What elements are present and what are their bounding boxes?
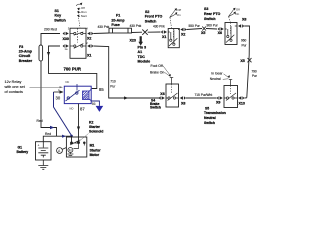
label NC (tiny) — [66, 80, 70, 84]
S3 lever Off/On — [228, 9, 234, 22]
pin number 1a — [65, 47, 68, 51]
pin label 4 — [58, 88, 60, 92]
wire diagonal relay 30 to solenoid B (blue) — [54, 92, 72, 136]
labels Off / On (S3) — [235, 8, 239, 17]
svg-text:X13: X13 — [239, 101, 245, 105]
label X1 (S2 left) — [162, 35, 166, 39]
svg-text:Off: Off — [236, 8, 240, 12]
connector X5 (horizontal) — [202, 27, 206, 31]
relay coil (blue hatched) — [83, 89, 92, 102]
svg-text:X9: X9 — [216, 100, 220, 104]
S5 plunger — [229, 80, 232, 86]
label 710 Pur — [110, 80, 116, 89]
svg-text:Switch: Switch — [204, 121, 215, 125]
connector X1 (S2 left) — [161, 30, 167, 33]
wire S2 to X5 — [187, 29, 203, 30]
label X30 — [63, 37, 69, 41]
S2 internal dashes — [173, 29, 175, 39]
svg-text:Switch: Switch — [204, 17, 216, 21]
wire Red battery to solenoid B junction — [43, 136, 71, 142]
front PTO switch S2 box — [168, 29, 179, 48]
label X5 (vertical) — [240, 59, 244, 63]
svg-text:Switch: Switch — [54, 18, 66, 22]
svg-text:710: 710 — [110, 80, 116, 84]
connector X8 (S3 right) — [238, 24, 244, 27]
svg-text:In Gear: In Gear — [211, 72, 223, 76]
svg-text:X6: X6 — [160, 92, 164, 96]
key switch contact row 2 — [70, 44, 86, 49]
ground (relay, blue) — [96, 106, 104, 112]
arrow to module (bold down) — [138, 36, 143, 45]
connector X9 (S5 left) — [217, 96, 223, 99]
svg-text:Breaker: Breaker — [19, 59, 33, 63]
svg-text:TDC: TDC — [138, 55, 146, 59]
wire X5 to S3 — [206, 28, 217, 31]
S2 lever Off/On — [170, 10, 176, 28]
wire key X2 to fuse F1 — [93, 32, 109, 35]
label X8 (S4 right) — [181, 101, 185, 105]
wire 200 Red breaker top to key switch — [41, 34, 60, 46]
svg-text:A1: A1 — [138, 50, 143, 54]
arrow on battery wire — [62, 135, 66, 138]
pin label 87 — [80, 106, 85, 111]
svg-text:X8: X8 — [181, 101, 185, 105]
connector X23 — [142, 30, 147, 35]
svg-text:X8: X8 — [242, 18, 246, 22]
svg-text:S5: S5 — [205, 106, 209, 110]
connector X13 (S5 right) — [238, 96, 244, 99]
wire 700 PUR key switch to relay 85 — [49, 46, 97, 89]
svg-text:200 Red: 200 Red — [44, 28, 57, 32]
svg-text:700 PUR: 700 PUR — [64, 67, 82, 72]
svg-text:X30: X30 — [63, 37, 69, 41]
svg-text:30: 30 — [56, 96, 61, 101]
label Foot Off Brake On — [150, 64, 164, 75]
labels Off / On (S2) — [177, 8, 181, 17]
svg-text:Neutral: Neutral — [210, 77, 221, 81]
S5 internal dashes — [230, 86, 232, 95]
svg-text:86: 86 — [92, 102, 96, 106]
label S2 Front PTO Switch — [145, 10, 163, 23]
key switch S1 box — [70, 28, 86, 58]
label X13 — [239, 101, 245, 105]
ground (starter, internal) — [67, 153, 73, 158]
label 12v Relay with one set of contacts — [5, 80, 26, 94]
label X5 — [201, 31, 205, 35]
label F1 20-Amp Fuse — [111, 14, 125, 27]
svg-text:85: 85 — [99, 87, 104, 92]
wire relay 86 to ground — [91, 101, 99, 106]
label G1 Battery — [17, 146, 29, 155]
svg-text:+: + — [38, 144, 40, 148]
svg-text:S2: S2 — [145, 10, 149, 14]
wire junction into starter box B terminal — [71, 136, 73, 142]
leader arrows to S5 plunger — [223, 74, 229, 80]
label 430 Pnk (1) — [98, 25, 110, 29]
S4 internal dashes — [171, 84, 173, 94]
svg-text:Red: Red — [37, 119, 43, 123]
arrow on brake row wire — [124, 96, 128, 99]
svg-text:430 Pnk: 430 Pnk — [130, 24, 142, 28]
label 960 Pur (vertical wire) — [241, 39, 247, 48]
svg-text:S3: S3 — [204, 7, 208, 11]
svg-text:X5: X5 — [240, 59, 244, 63]
connector X1 (key right bottom) — [87, 44, 93, 47]
wire fuse to X23 — [132, 31, 143, 33]
battery plus sign — [38, 144, 40, 148]
battery G1 box — [36, 142, 52, 160]
label K2 Starter Solenoid — [89, 121, 103, 134]
wire into relay pin 30 — [54, 91, 61, 93]
svg-text:On: On — [177, 13, 181, 17]
svg-text:Transmission: Transmission — [204, 111, 226, 115]
connector X5 (vertical) — [248, 58, 252, 62]
svg-text:20-Amp: 20-Amp — [111, 18, 125, 22]
fuse F1 — [109, 28, 132, 33]
svg-text:20-Amp: 20-Amp — [19, 50, 33, 54]
label 790 Pur — [251, 69, 257, 78]
label X1 — [87, 53, 91, 57]
svg-text:Circuit: Circuit — [19, 54, 31, 58]
ground (battery) — [38, 160, 48, 169]
label Red (on vertical) — [37, 119, 43, 123]
svg-text:with one set: with one set — [5, 85, 26, 89]
arrow on wire y127.5 — [50, 126, 54, 129]
pin number 2 — [86, 41, 88, 45]
leader line to relay — [30, 86, 61, 89]
svg-text:X1: X1 — [87, 53, 91, 57]
pin label 85 — [99, 87, 104, 92]
svg-text:Pin 3: Pin 3 — [138, 45, 147, 49]
svg-text:M1: M1 — [90, 144, 95, 148]
svg-text:K2: K2 — [89, 121, 93, 125]
label 200 Red — [44, 28, 57, 32]
label 960 Pur — [207, 24, 219, 28]
wire relay 87 down to starter solenoid S — [78, 104, 80, 142]
rear PTO switch S3 box — [225, 23, 237, 45]
S3 contact — [225, 26, 237, 43]
connector X2 (S2 right) — [180, 28, 186, 31]
connector X6 (S3 left) — [218, 27, 224, 30]
wire key X1 to brake row — [93, 46, 160, 98]
svg-text:715 Pur/Wht: 715 Pur/Wht — [195, 93, 213, 97]
label Red (above battery wire) — [45, 132, 51, 136]
svg-text:Off: Off — [177, 8, 181, 12]
svg-text:Starter: Starter — [90, 148, 102, 152]
label S4 Brake Switch — [150, 99, 161, 110]
label S3 Rear PTO Switch — [204, 7, 221, 21]
svg-text:F3: F3 — [19, 45, 23, 49]
svg-text:X2: X2 — [87, 36, 91, 40]
arrow on 700 PUR drop — [47, 52, 50, 56]
pin label 86 — [92, 102, 96, 106]
label X23 — [130, 39, 136, 43]
svg-text:Switch: Switch — [150, 106, 161, 110]
svg-text:87: 87 — [80, 106, 85, 111]
label M1 Starter Motor — [90, 144, 102, 158]
svg-text:Solenoid: Solenoid — [89, 130, 103, 134]
svg-text:Red: Red — [45, 132, 51, 136]
svg-text:of contacts: of contacts — [5, 90, 23, 94]
label In Gear Neutral — [210, 72, 224, 82]
svg-text:On: On — [235, 12, 239, 16]
motor M circle — [68, 148, 73, 153]
svg-text:Brake On: Brake On — [150, 70, 164, 74]
svg-text:960: 960 — [241, 39, 247, 43]
label X6 (S3 left) — [218, 31, 222, 35]
S4 plunger — [170, 78, 173, 85]
svg-text:X2: X2 — [181, 33, 185, 37]
key rotary positions — [76, 4, 81, 27]
label S1 Key Switch — [54, 9, 66, 23]
wire breaker down to battery area — [41, 61, 57, 136]
label X8 (S3 right) — [242, 18, 246, 22]
arrow on 87 wire — [77, 127, 80, 131]
connector key left bottom — [63, 44, 69, 47]
connector X30 (key left top) — [63, 32, 69, 35]
wire S3 out down right side — [244, 26, 249, 98]
svg-text:Battery: Battery — [17, 150, 29, 154]
label NO (tiny) — [70, 106, 74, 110]
svg-text:G1: G1 — [18, 146, 23, 150]
svg-text:Foot Off: Foot Off — [151, 64, 163, 68]
battery symbol — [38, 142, 48, 158]
svg-text:X23: X23 — [130, 39, 136, 43]
svg-text:X5: X5 — [201, 31, 205, 35]
relay K1 box (blue) — [64, 86, 91, 103]
brake switch S4 box — [166, 84, 179, 107]
S3 internal dashes — [230, 23, 232, 34]
starter solenoid contact K2 — [70, 141, 85, 144]
label 430 Pnk (3) — [153, 24, 165, 28]
pin number 4 — [86, 27, 88, 31]
connector X8 (S4 right) — [180, 96, 186, 99]
svg-text:NO: NO — [70, 106, 74, 110]
label 430 Pnk (2) — [130, 24, 142, 28]
connector X6 (S4 left) — [159, 96, 165, 99]
svg-text:12v Relay: 12v Relay — [5, 80, 22, 84]
starter box M1/K2 — [66, 137, 86, 157]
transmission neutral switch S5 box — [224, 86, 238, 108]
circuit breaker F3 — [39, 45, 43, 61]
pin label 30 — [56, 96, 61, 101]
S5 contact — [224, 93, 238, 101]
svg-text:Starter: Starter — [89, 125, 101, 129]
svg-text:550 Pur: 550 Pur — [189, 24, 201, 28]
svg-text:790: 790 — [251, 69, 257, 73]
label 550 Pur — [189, 24, 201, 28]
relay contact (blue) — [66, 84, 80, 101]
svg-text:430 Pnk: 430 Pnk — [153, 24, 165, 28]
label X6 (S4 left) — [160, 92, 164, 96]
svg-text:Front PTO: Front PTO — [145, 15, 163, 19]
label X9 (S5 left) — [216, 100, 220, 104]
svg-text:X1: X1 — [162, 35, 166, 39]
leader arrows to S4 plunger — [163, 66, 170, 77]
svg-text:NC: NC — [66, 80, 70, 84]
node B junction at solenoid — [70, 135, 73, 138]
svg-text:430 Pnk: 430 Pnk — [98, 25, 110, 29]
S4 contact — [166, 93, 179, 101]
key switch internal link (dashed) — [77, 28, 79, 42]
labels Off Run Start (key rotary) — [81, 6, 87, 18]
svg-text:Switch: Switch — [145, 19, 157, 23]
wire node A to starter box — [62, 148, 66, 150]
wire S5 to right vertical — [244, 97, 247, 99]
svg-text:Key: Key — [55, 14, 62, 18]
label X2 — [87, 36, 91, 40]
pin number 3 — [68, 27, 70, 31]
label F3 20-Amp Circuit Breaker — [19, 45, 33, 63]
svg-text:F1: F1 — [116, 14, 120, 18]
svg-text:960 Pur: 960 Pur — [207, 24, 219, 28]
label X2 (S2 right) — [181, 33, 185, 37]
node A connector circle — [57, 148, 63, 154]
svg-text:X6: X6 — [218, 31, 222, 35]
svg-text:Module: Module — [138, 60, 151, 64]
svg-text:Fuse: Fuse — [111, 23, 119, 27]
svg-text:Rear PTO: Rear PTO — [204, 12, 221, 16]
label Pin 3 A1 TDC Module — [138, 45, 151, 63]
svg-text:M: M — [69, 148, 72, 152]
label 715 Pur/Wht — [195, 93, 213, 97]
svg-text:Neutral: Neutral — [204, 116, 216, 120]
svg-text:Start: Start — [81, 14, 87, 18]
label 700 PUR — [64, 67, 82, 72]
leader K2 to solenoid — [80, 134, 89, 141]
svg-text:S1: S1 — [55, 9, 59, 13]
wire X23 to S2 — [148, 31, 161, 33]
key switch contact row 1 — [70, 32, 86, 35]
wire S4 to S5 — [186, 97, 217, 99]
connector X2 (key right top) — [87, 32, 93, 35]
label S5 Transmission Neutral Switch — [204, 106, 226, 124]
S2 contact — [168, 30, 179, 47]
svg-text:Motor: Motor — [90, 153, 100, 157]
